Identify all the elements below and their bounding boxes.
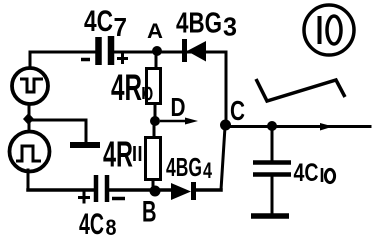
arrow at node D bbox=[160, 118, 198, 125]
wire node A down to R10 bbox=[155, 52, 158, 68]
wire top rail left segment bbox=[30, 51, 96, 54]
wire node D down to R11 bbox=[153, 121, 156, 137]
wire bottom rail middle segment bbox=[109, 188, 171, 192]
capacitor C7 (4C7) plates bbox=[99, 36, 112, 65]
svg-text:4BG: 4BG bbox=[176, 8, 222, 40]
label 4C7 bbox=[84, 5, 127, 42]
pulse generator G1 circle bbox=[12, 68, 48, 104]
label 4C8 bbox=[79, 208, 117, 241]
wire left vertical to generator G1 bbox=[29, 52, 32, 68]
svg-text:A: A bbox=[147, 20, 163, 43]
label 4BG4 bbox=[166, 152, 213, 183]
svg-text:4BG: 4BG bbox=[166, 152, 202, 182]
wire bottom rail right segment bbox=[196, 188, 221, 192]
node D junction dot bbox=[150, 116, 160, 126]
label 4R10 bbox=[111, 67, 152, 108]
svg-text:4R: 4R bbox=[103, 134, 133, 175]
resistor R10 (4R10) body bbox=[147, 69, 161, 104]
plus sign of C8 bbox=[78, 192, 90, 204]
svg-text:4: 4 bbox=[203, 158, 213, 183]
wire output rail bbox=[225, 125, 370, 128]
minus sign of C7 bbox=[81, 58, 90, 62]
wire R11 down to node B bbox=[152, 180, 155, 190]
capacitor C8 (4C8) plates bbox=[96, 175, 107, 202]
svg-text:B: B bbox=[142, 196, 157, 229]
wire bottom rail left segment bbox=[28, 188, 95, 192]
node B junction dot bbox=[150, 186, 161, 197]
capacitor C10 (4C10) plates bbox=[253, 163, 291, 175]
wire R10 down to node D bbox=[154, 104, 157, 122]
wire ground branch vertical stub bbox=[85, 120, 88, 141]
sawtooth waveform sketch bbox=[256, 79, 345, 101]
diode BG3 (4BG3) cathode bar bbox=[182, 39, 187, 62]
svg-text:C: C bbox=[230, 95, 245, 126]
wire between generators bbox=[28, 104, 31, 133]
svg-text:4C: 4C bbox=[79, 208, 104, 241]
plus sign of C7 bbox=[117, 53, 128, 64]
diode BG4 triangle pointing right bbox=[171, 183, 191, 200]
figure number circle 10 bbox=[304, 5, 354, 55]
label 4BG3 bbox=[176, 8, 237, 42]
svg-text:7: 7 bbox=[114, 12, 128, 42]
wire from output rail down to C10 bbox=[271, 129, 274, 160]
svg-text:8: 8 bbox=[106, 215, 117, 240]
wire right vertical from bottom rail up to node C bbox=[221, 127, 225, 190]
minus sign of C8 bbox=[112, 197, 125, 201]
resistor R11 (4R11) body bbox=[146, 138, 161, 180]
svg-text:4C: 4C bbox=[84, 5, 113, 38]
svg-text:3: 3 bbox=[223, 12, 237, 42]
svg-text:D: D bbox=[171, 92, 186, 122]
node A junction dot bbox=[152, 46, 162, 56]
junction diamond node bbox=[23, 113, 34, 125]
negative pulse symbol inside G1 bbox=[20, 79, 43, 92]
label 4R11 bbox=[103, 134, 140, 175]
ground bar under C10 bbox=[251, 213, 289, 219]
svg-text:4C: 4C bbox=[294, 159, 319, 187]
wire C10 down to ground bbox=[271, 177, 274, 212]
wire top rail right segment bbox=[113, 51, 226, 54]
label 4C10 bbox=[294, 159, 335, 187]
node C junction dot bbox=[220, 120, 231, 131]
ground bar bbox=[70, 142, 100, 148]
positive pulse symbol inside G2 bbox=[16, 146, 41, 161]
junction dot on output rail bbox=[267, 121, 277, 131]
svg-text:4R: 4R bbox=[111, 67, 142, 108]
arrowhead on output rail bbox=[320, 123, 333, 131]
wire right vertical from diode corner down to node C bbox=[225, 52, 228, 124]
wire from G2 down to bottom rail corner bbox=[27, 170, 30, 190]
diode BG4 cathode bar bbox=[191, 182, 196, 200]
diode BG3 triangle pointing left bbox=[187, 41, 206, 62]
wire ground branch horizontal bbox=[33, 119, 86, 122]
pulse generator G2 circle bbox=[10, 132, 50, 172]
